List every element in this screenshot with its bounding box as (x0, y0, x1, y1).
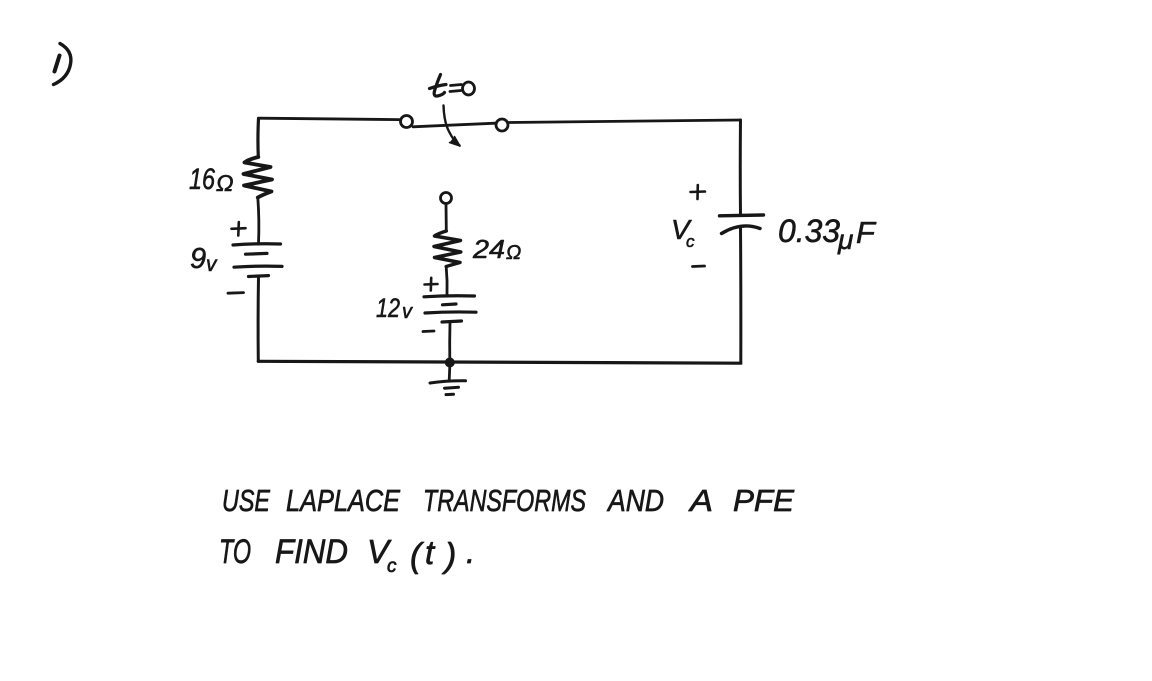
problem number 1) (54, 44, 71, 85)
battery V2 12V (424, 296, 476, 322)
label 0.33uF (778, 213, 877, 255)
svg-text:F: F (856, 215, 877, 250)
svg-text:μ: μ (837, 224, 853, 255)
svg-text:v: v (206, 253, 218, 276)
svg-text:24: 24 (472, 234, 505, 264)
svg-text:PFE: PFE (733, 483, 794, 518)
wire top right segment (509, 120, 741, 123)
label - (capacitor) (693, 265, 705, 268)
wire R2 to battery V2 (445, 267, 449, 296)
svg-text:LAPLACE: LAPLACE (286, 483, 400, 518)
svg-text:AND: AND (606, 483, 664, 518)
svg-text:12: 12 (376, 293, 400, 323)
label + (capacitor) (691, 185, 706, 199)
caption line 2 (219, 533, 475, 577)
label t=0 (430, 75, 475, 97)
svg-text:c: c (686, 232, 695, 251)
wire R1 to battery V1 (258, 198, 259, 245)
label + (12V battery) (425, 278, 438, 291)
svg-text:16: 16 (189, 163, 215, 196)
label - (9V battery) (228, 291, 244, 294)
wire right vertical lower (739, 228, 742, 363)
label 9V (190, 243, 218, 276)
label 24ohm (472, 234, 521, 264)
svg-text:0.33: 0.33 (778, 213, 840, 249)
switch throw terminal (middle branch) (441, 193, 452, 204)
svg-text:9: 9 (190, 243, 206, 275)
wire left vertical upper (256, 119, 260, 158)
svg-text:USE: USE (222, 483, 270, 518)
svg-text:A: A (688, 483, 713, 518)
wire top left segment (259, 118, 400, 119)
label - (12V battery) (423, 330, 434, 333)
label Vc (671, 214, 695, 251)
svg-text:Ω: Ω (216, 170, 234, 196)
svg-text:Ω: Ω (506, 242, 521, 264)
battery V1 9V (233, 244, 282, 277)
wire right vertical upper (739, 120, 742, 215)
wire bottom (258, 361, 741, 363)
resistor R1 16ohm (244, 157, 273, 198)
switch S1 right terminal (496, 119, 508, 131)
label + (9V battery) (232, 222, 246, 236)
wire V1 to bottom (257, 277, 260, 361)
switch S1 blade (413, 123, 496, 127)
svg-text:FIND: FIND (275, 533, 348, 571)
svg-text:TO: TO (219, 533, 251, 571)
label 16ohm (189, 163, 234, 196)
capacitor C1 top plate (720, 213, 764, 217)
svg-text:TRANSFORMS: TRANSFORMS (423, 483, 586, 518)
switch S1 left terminal (401, 116, 413, 128)
svg-text:v: v (402, 301, 413, 323)
svg-text:c: c (387, 556, 397, 577)
svg-text:): ) (441, 537, 456, 575)
switch actuation arrow (444, 106, 461, 147)
capacitor C1 bottom plate (722, 226, 761, 234)
ground (430, 366, 466, 395)
wire V2 to junction (448, 322, 451, 362)
label 12V (376, 293, 413, 323)
svg-text:t: t (425, 534, 436, 571)
svg-text:(: ( (410, 537, 425, 575)
svg-text:.: . (466, 533, 475, 570)
resistor R2 24ohm (434, 231, 461, 267)
wire terminal to R2 (445, 204, 448, 232)
junction node dot (445, 358, 455, 368)
caption line 1 (222, 483, 794, 518)
